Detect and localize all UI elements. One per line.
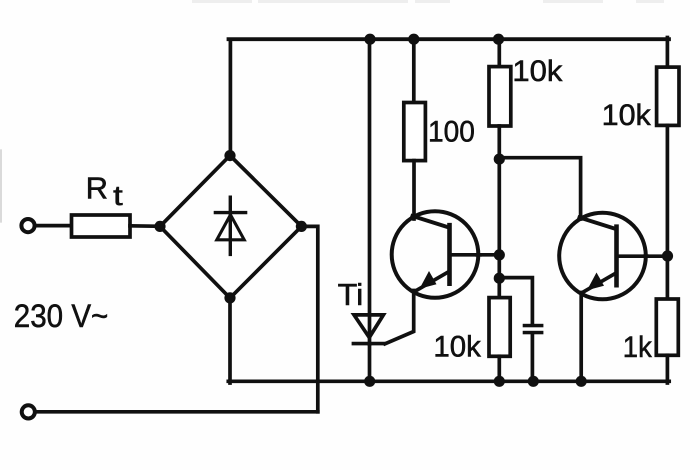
label Rt [86, 171, 123, 211]
wire thyristor gate to Q1 emitter [385, 291, 414, 344]
wire node to capacitor C1 [499, 278, 532, 325]
svg-text:1k: 1k [623, 331, 653, 364]
wire bridge bottom node down [228, 298, 232, 383]
wire C1 to bottom bus [531, 334, 535, 383]
wire Rt to bridge left node [130, 224, 161, 228]
wire top bus right corner to R5 [666, 38, 670, 68]
bridge rectifier B1 (diamond) [160, 156, 302, 299]
node top bus thyristor [364, 34, 375, 45]
svg-text:Ti: Ti [338, 277, 364, 312]
node bottom bus C1 [528, 376, 539, 387]
scan edge artifact left [0, 150, 2, 222]
wire R6 to bottom bus [666, 355, 670, 383]
wire thyristor cathode to bottom bus [368, 344, 372, 383]
node bridge bottom [224, 292, 235, 303]
wire R4 to bottom bus [497, 356, 501, 383]
transistor Q1 [392, 211, 480, 298]
svg-text:230 V~: 230 V~ [14, 298, 109, 334]
svg-text:10k: 10k [512, 55, 563, 88]
wire top bus to thyristor anode [368, 39, 372, 344]
wire node A to Q2 collector [499, 158, 580, 219]
wire R5 to Q2 base node [666, 125, 670, 299]
diode inside bridge [215, 197, 245, 254]
wire bridge right node to lower left terminal [302, 226, 318, 411]
wire R2 to Q1 collector [412, 161, 416, 219]
node capacitor branch junction [494, 273, 505, 284]
wire Q1 base to node [477, 253, 501, 257]
wire top bus to R2 (100) [412, 39, 416, 103]
node Q1 base junction [494, 249, 505, 260]
cropped text artifact top edge [192, 0, 664, 3]
resistor R5 10k [657, 67, 679, 125]
transistor Q2 [559, 213, 647, 300]
svg-text:t: t [113, 180, 123, 211]
resistor R3 10k [489, 67, 511, 126]
wire Q2 emitter to bottom bus [579, 293, 583, 384]
svg-text:10k: 10k [602, 99, 652, 132]
terminal X2 (bottom left, 230V input) [22, 405, 35, 418]
resistor Rt [72, 215, 131, 237]
wire terminal X1 to Rt [36, 224, 73, 228]
resistor R4 10k [489, 298, 510, 357]
svg-text:R: R [86, 171, 108, 206]
node A junction [494, 154, 505, 165]
svg-text:100: 100 [428, 116, 475, 149]
node top bus R2 [408, 34, 419, 45]
node bottom bus R4 [494, 376, 505, 387]
node bridge top [224, 150, 235, 161]
resistor R2 100 [404, 103, 426, 161]
node bridge left [154, 221, 165, 232]
wire top bus [229, 37, 670, 41]
wire Q2 base to node [645, 254, 669, 258]
svg-text:10k: 10k [433, 331, 481, 364]
node bridge right [296, 221, 307, 232]
node bottom bus thyristor [364, 376, 375, 387]
terminal X1 (top left, 230V input) [21, 219, 34, 232]
wire bottom terminal to riser [36, 410, 318, 414]
node bottom bus Q2 emitter [576, 376, 587, 387]
wire bottom bus [228, 379, 669, 383]
wire R3 to node A [497, 126, 501, 299]
thyristor Ti [353, 315, 384, 344]
wire bridge top node to top bus [229, 41, 233, 156]
wire top bus to R3 (10k) [497, 39, 501, 67]
node Q2 base junction [662, 250, 673, 261]
resistor R6 1k [656, 299, 678, 355]
node top bus R3 [493, 34, 504, 45]
capacitor C1 [523, 324, 544, 335]
